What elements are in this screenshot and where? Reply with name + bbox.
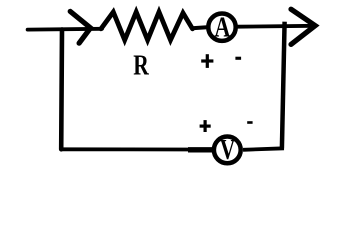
svg-text:V: V — [220, 135, 235, 165]
ammeter U1 circle — [208, 14, 235, 41]
wire: left vertical — [59, 30, 64, 150]
resistor R1 zigzag body — [101, 12, 193, 40]
svg-text:R: R — [133, 51, 149, 81]
wire: voltmeter left thick lead — [188, 147, 212, 152]
wire: ammeter to output arrow — [238, 24, 315, 29]
wire: resistor to ammeter — [192, 25, 207, 30]
voltmeter U2 circle — [214, 137, 241, 164]
polarity label - (ammeter) — [235, 57, 241, 60]
wire: bottom left (corner to voltmeter) — [61, 147, 190, 151]
wire: bottom right (corner to voltmeter) — [243, 148, 284, 150]
svg-text:A: A — [214, 13, 231, 43]
polarity label + (voltmeter) — [200, 120, 211, 132]
polarity label + (ammeter) — [201, 54, 213, 68]
current arrow (output, top right) — [291, 9, 315, 44]
wire: top-left input lead — [28, 27, 102, 32]
current arrow (into resistor) — [70, 11, 90, 43]
wire: right vertical — [282, 22, 285, 149]
polarity label - (voltmeter) — [247, 121, 252, 124]
